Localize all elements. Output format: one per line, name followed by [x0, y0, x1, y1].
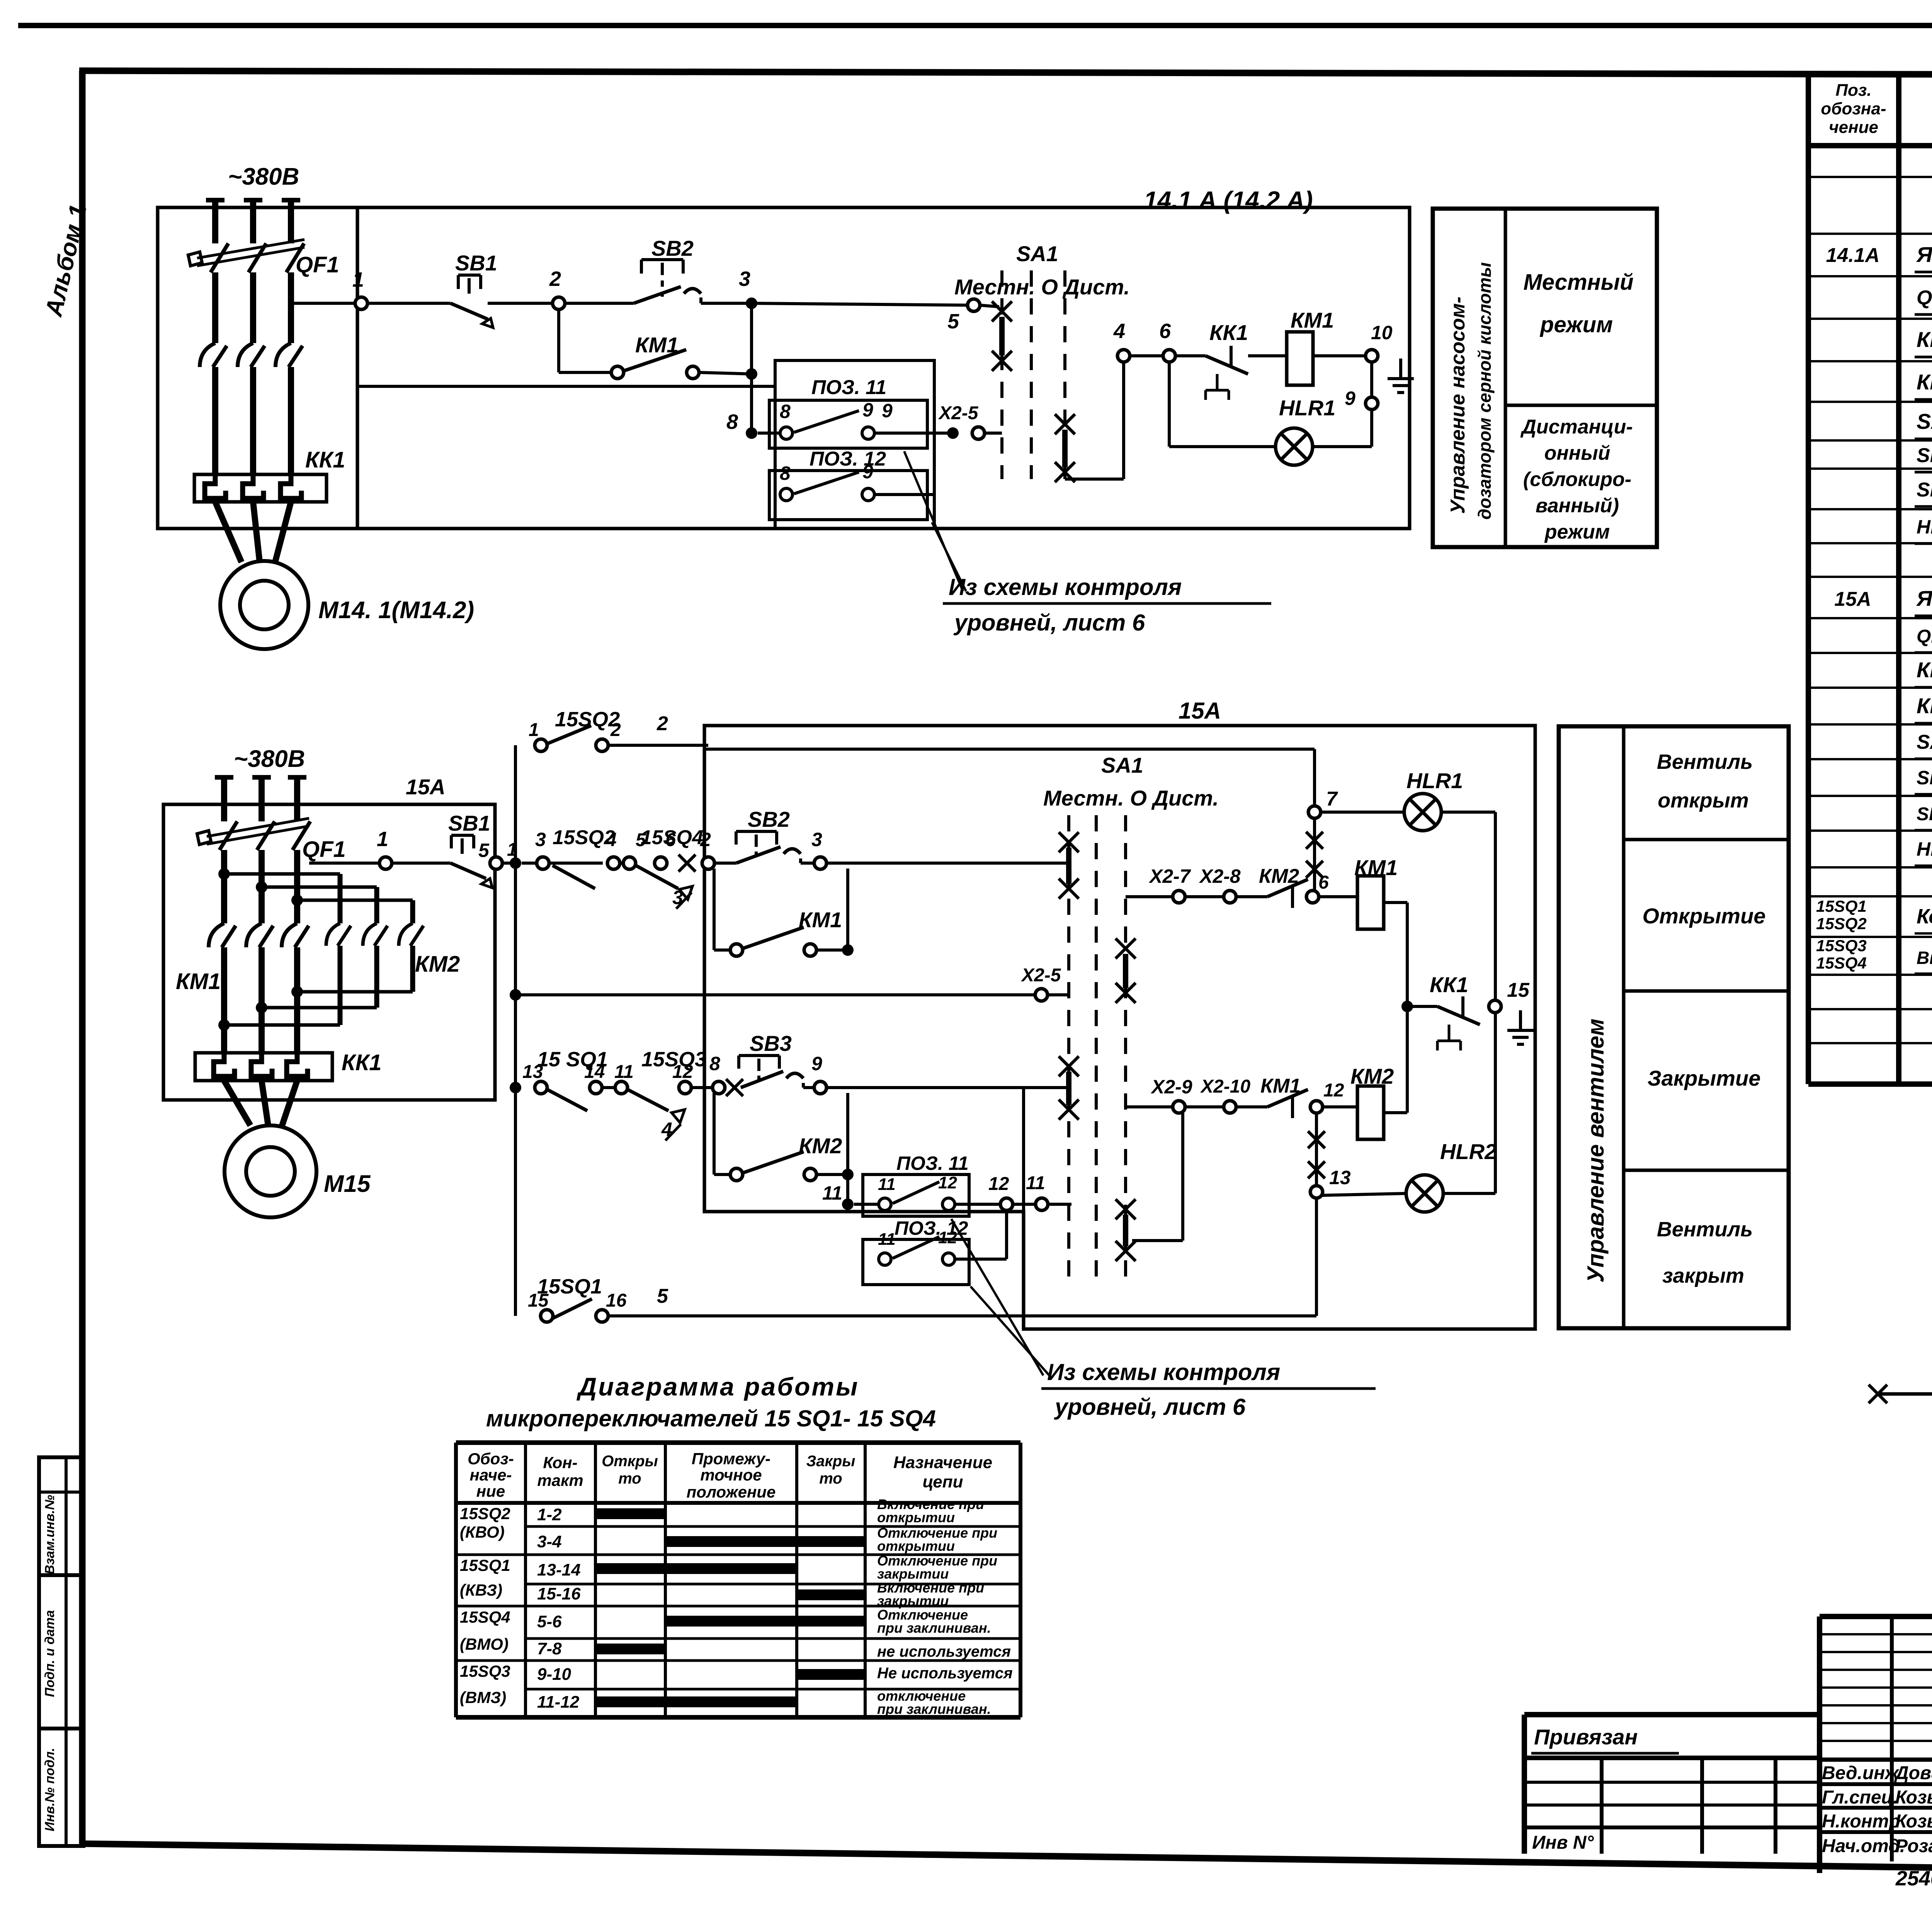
- svg-text:HLR1: HLR1: [1406, 768, 1463, 793]
- svg-text:10: 10: [1371, 322, 1393, 343]
- svg-text:КМ1, КМ2- Пускатель ПМЛ 1501: КМ1, КМ2- Пускатель ПМЛ 1501: [1917, 658, 1932, 682]
- svg-text:Закры: Закры: [806, 1453, 855, 1470]
- svg-text:дозатором серной кислоты: дозатором серной кислоты: [1475, 262, 1495, 520]
- svg-text:3-4: 3-4: [537, 1532, 562, 1551]
- svg-text:Обоз-: Обоз-: [468, 1450, 514, 1468]
- svg-text:15SQ1: 15SQ1: [460, 1556, 510, 1575]
- svg-text:Не используется: Не используется: [877, 1665, 1013, 1682]
- svg-text:при заклиниван.: при заклиниван.: [877, 1620, 991, 1636]
- svg-text:Поз.: Поз.: [1835, 81, 1871, 100]
- svg-text:Довгялло: Довгялло: [1894, 1763, 1932, 1783]
- svg-text:Розанов: Розанов: [1895, 1836, 1932, 1856]
- svg-text:ПОЗ. 12: ПОЗ. 12: [810, 448, 886, 470]
- svg-text:3: 3: [535, 829, 546, 850]
- svg-text:закрытии: закрытии: [877, 1593, 949, 1609]
- svg-text:SB3: SB3: [750, 1031, 792, 1056]
- svg-text:КМ1: КМ1: [1354, 855, 1398, 880]
- svg-text:Выключатель муфты предельного: Выключатель муфты предельного момента: [1917, 948, 1932, 968]
- svg-text:QF1- Выключатель АЕ2026-10НУ3-: QF1- Выключатель АЕ2026-10НУ3-Б, Iр1,6А: [1917, 287, 1932, 309]
- svg-text:Открытие: Открытие: [1643, 904, 1766, 928]
- svg-text:Вед.инж: Вед.инж: [1822, 1763, 1900, 1783]
- svg-text:2: 2: [656, 712, 668, 735]
- svg-text:Промежу-: Промежу-: [692, 1450, 770, 1468]
- svg-text:SB2: SB2: [748, 807, 790, 831]
- svg-text:15: 15: [528, 1290, 549, 1311]
- svg-text:8: 8: [709, 1053, 720, 1074]
- svg-text:SB1- Кнопка КЕ011У3, исп2, кра: SB1- Кнопка КЕ011У3, исп2, красный: [1917, 444, 1932, 467]
- svg-text:Управление вентилем: Управление вентилем: [1583, 1018, 1609, 1283]
- svg-text:1: 1: [529, 720, 539, 740]
- svg-text:ПОЗ. 11: ПОЗ. 11: [896, 1152, 969, 1174]
- svg-text:то: то: [618, 1470, 641, 1487]
- svg-text:SB1: SB1: [455, 251, 497, 275]
- svg-text:7-8: 7-8: [537, 1639, 562, 1658]
- svg-text:~380В: ~380В: [228, 163, 299, 190]
- svg-text:Местный: Местный: [1523, 270, 1633, 295]
- svg-text:Из схемы контроля: Из схемы контроля: [949, 574, 1182, 600]
- svg-text:Ящик управления Я5411-2074 УХЛ: Ящик управления Я5411-2074 УХЛ4: [1916, 586, 1932, 610]
- svg-text:КМ1: КМ1: [1291, 308, 1334, 332]
- svg-text:12: 12: [988, 1174, 1009, 1194]
- svg-text:25408-01: 25408-01: [1895, 1867, 1932, 1890]
- svg-text:12: 12: [1323, 1080, 1344, 1101]
- svg-text:15SQ1: 15SQ1: [1816, 897, 1867, 916]
- svg-text:Подп. и дата: Подп. и дата: [43, 1610, 57, 1697]
- svg-text:13-14: 13-14: [537, 1560, 581, 1579]
- svg-text:SB2: SB2: [651, 236, 694, 260]
- svg-text:(сблокиро-: (сблокиро-: [1523, 468, 1631, 491]
- svg-text:КМ1: КМ1: [635, 333, 679, 357]
- svg-text:15SQ3: 15SQ3: [460, 1662, 510, 1681]
- svg-text:М15: М15: [324, 1171, 371, 1197]
- svg-text:14: 14: [584, 1062, 605, 1082]
- svg-text:5: 5: [947, 310, 959, 333]
- svg-text:11: 11: [822, 1182, 842, 1204]
- svg-text:наче-: наче-: [470, 1466, 512, 1484]
- svg-text:КК1 - Реле РТЛ -1005: КК1 - Реле РТЛ -1005: [1917, 370, 1932, 394]
- svg-text:Н.контр: Н.контр: [1822, 1811, 1900, 1832]
- svg-text:11: 11: [614, 1062, 634, 1082]
- svg-text:7: 7: [1326, 788, 1338, 810]
- svg-text:ванный): ванный): [1536, 495, 1619, 517]
- svg-text:3: 3: [811, 829, 822, 850]
- svg-text:Х2-5: Х2-5: [1020, 965, 1061, 986]
- svg-text:3: 3: [739, 267, 750, 291]
- svg-text:9-10: 9-10: [537, 1665, 571, 1684]
- svg-text:Привязан: Привязан: [1534, 1725, 1638, 1749]
- svg-text:16: 16: [606, 1290, 627, 1311]
- svg-text:цепи: цепи: [923, 1472, 963, 1491]
- svg-text:15А: 15А: [1834, 588, 1871, 610]
- svg-text:(КВЗ): (КВЗ): [460, 1581, 502, 1599]
- svg-text:8: 8: [726, 410, 738, 433]
- svg-text:Х2-8: Х2-8: [1199, 865, 1241, 887]
- svg-text:(ВМО): (ВМО): [460, 1635, 509, 1653]
- svg-text:при заклиниван.: при заклиниван.: [877, 1701, 991, 1717]
- svg-text:12: 12: [672, 1062, 693, 1082]
- svg-text:2: 2: [549, 267, 561, 291]
- svg-text:9: 9: [862, 461, 873, 483]
- svg-text:режим: режим: [1539, 312, 1613, 337]
- svg-text:SB1 - Кнопка КЕ011У3, исп 2, к: SB1 - Кнопка КЕ011У3, исп 2, красный: [1917, 767, 1932, 789]
- svg-text:15SQ4: 15SQ4: [1816, 954, 1867, 972]
- svg-text:4: 4: [605, 829, 617, 850]
- svg-text:Инв.№ подл.: Инв.№ подл.: [43, 1748, 57, 1832]
- svg-text:не используется: не используется: [877, 1643, 1011, 1660]
- svg-text:13: 13: [1329, 1167, 1351, 1188]
- svg-text:13: 13: [522, 1062, 543, 1082]
- svg-text:Дистанци-: Дистанци-: [1520, 416, 1633, 438]
- svg-text:14.1А: 14.1А: [1826, 244, 1880, 267]
- svg-text:ПОЗ. 11: ПОЗ. 11: [811, 376, 886, 399]
- svg-text:SA1- Переключатель ПКУ3-14С-У: SA1- Переключатель ПКУ3-14С-У3: [1917, 731, 1932, 753]
- svg-text:8: 8: [780, 462, 791, 484]
- svg-text:ние: ние: [476, 1482, 505, 1500]
- svg-text:микропереключателей 15 SQ1- 1: микропереключателей 15 SQ1- 15 SQ4: [486, 1406, 936, 1431]
- svg-text:QF1: QF1: [302, 837, 346, 862]
- svg-text:Козьминых: Козьминых: [1895, 1811, 1932, 1832]
- svg-text:5: 5: [657, 1285, 668, 1307]
- svg-text:закрытии: закрытии: [877, 1566, 949, 1582]
- svg-text:(КВО): (КВО): [460, 1523, 505, 1541]
- svg-text:Х2-7: Х2-7: [1148, 865, 1191, 887]
- svg-text:открытии: открытии: [877, 1538, 955, 1554]
- svg-text:9: 9: [1345, 388, 1355, 409]
- svg-text:5: 5: [478, 840, 490, 861]
- svg-text:Конечный Выключатель: Конечный Выключатель: [1917, 905, 1932, 928]
- svg-text:онный: онный: [1544, 442, 1611, 464]
- svg-text:9: 9: [811, 1053, 822, 1074]
- svg-text:Местн. О Дист.: Местн. О Дист.: [954, 275, 1130, 299]
- svg-text:КК1: КК1: [342, 1050, 382, 1075]
- svg-text:КК1: КК1: [1209, 320, 1248, 345]
- svg-text:(ВМЗ): (ВМЗ): [460, 1688, 506, 1707]
- svg-text:9: 9: [882, 400, 893, 422]
- svg-text:Нач.отд.: Нач.отд.: [1822, 1836, 1905, 1856]
- svg-text:QF1: QF1: [296, 252, 339, 277]
- svg-text:КМ1: КМ1: [799, 908, 842, 932]
- svg-text:Из схемы контроля: Из схемы контроля: [1047, 1359, 1280, 1385]
- svg-text:15SQ2: 15SQ2: [460, 1504, 510, 1523]
- svg-text:SB2- Кнопка КЕ011У3, исп.2, че: SB2- Кнопка КЕ011У3, исп.2, черный: [1917, 479, 1932, 501]
- svg-text:12: 12: [938, 1228, 957, 1247]
- svg-text:Местн. О Дист.: Местн. О Дист.: [1043, 786, 1219, 810]
- svg-text:15А: 15А: [406, 775, 446, 799]
- svg-text:SA1- Переключатель ПКУ3-14С-У3: SA1- Переключатель ПКУ3-14С-У3: [1917, 409, 1932, 433]
- svg-text:чение: чение: [1829, 118, 1878, 137]
- svg-text:М14. 1(М14.2): М14. 1(М14.2): [318, 597, 474, 624]
- svg-text:9: 9: [862, 399, 873, 421]
- svg-text:15А: 15А: [1179, 698, 1221, 724]
- svg-text:КМ2: КМ2: [799, 1134, 842, 1158]
- svg-text:HLR1, HLR2- Арматура АМЕ-32112: HLR1, HLR2- Арматура АМЕ-3211221292: [1917, 838, 1932, 860]
- svg-text:уровней, лист 6: уровней, лист 6: [953, 610, 1145, 636]
- svg-text:1: 1: [377, 828, 388, 851]
- svg-text:11: 11: [878, 1175, 896, 1194]
- svg-text:1-2: 1-2: [537, 1505, 562, 1524]
- svg-text:режим: режим: [1544, 521, 1610, 543]
- svg-text:КМ2: КМ2: [1350, 1064, 1394, 1088]
- svg-text:открыт: открыт: [1658, 789, 1749, 812]
- svg-text:уровней, лист 6: уровней, лист 6: [1054, 1394, 1246, 1420]
- svg-text:точное: точное: [700, 1466, 762, 1484]
- svg-text:такт: такт: [537, 1471, 583, 1489]
- svg-text:Вентиль: Вентиль: [1657, 750, 1753, 773]
- svg-text:2: 2: [700, 829, 711, 850]
- svg-text:15SQ3: 15SQ3: [1816, 937, 1867, 955]
- svg-text:HLR1: HLR1: [1279, 396, 1335, 420]
- svg-text:11: 11: [1026, 1173, 1045, 1193]
- svg-text:Управление насосом-: Управление насосом-: [1447, 297, 1469, 514]
- svg-text:Х2-5: Х2-5: [938, 403, 979, 423]
- svg-text:КМ2: КМ2: [415, 952, 460, 977]
- svg-text:КК1: КК1: [1430, 972, 1468, 997]
- svg-text:Кон-: Кон-: [543, 1453, 577, 1472]
- svg-text:11: 11: [878, 1230, 896, 1249]
- svg-text:~380В: ~380В: [234, 746, 305, 772]
- svg-text:Откры: Откры: [602, 1453, 658, 1470]
- svg-text:2: 2: [610, 720, 621, 740]
- svg-text:Инв N°: Инв N°: [1532, 1832, 1594, 1853]
- svg-text:15SQ4: 15SQ4: [460, 1608, 510, 1627]
- svg-text:15: 15: [1507, 979, 1530, 1001]
- svg-text:14.1 А (14.2 А): 14.1 А (14.2 А): [1144, 186, 1313, 214]
- svg-text:1: 1: [352, 268, 364, 291]
- svg-text:HLR1- Арматура АМЕ3212 212У2 U: HLR1- Арматура АМЕ3212 212У2 U~220В: [1917, 516, 1932, 538]
- svg-text:Назначение: Назначение: [893, 1453, 992, 1472]
- svg-text:Ящик управления Я5111-2074УХ: Ящик управления Я5111-2074УХЛ4: [1916, 242, 1932, 267]
- svg-text:КК1: КК1: [305, 447, 345, 473]
- svg-text:Закрытие: Закрытие: [1648, 1066, 1761, 1090]
- svg-text:QF1- Выключатель АЕ2026-10НУ3-: QF1- Выключатель АЕ2026-10НУ3-Б, Iр1,6А: [1917, 626, 1932, 647]
- svg-text:4: 4: [1113, 320, 1125, 343]
- svg-text:Х2-10: Х2-10: [1200, 1076, 1250, 1097]
- svg-text:обозна-: обозна-: [1821, 99, 1886, 118]
- svg-text:положение: положение: [687, 1483, 776, 1501]
- svg-text:SA1: SA1: [1016, 241, 1058, 266]
- svg-text:SA1: SA1: [1101, 753, 1143, 777]
- svg-text:3: 3: [672, 887, 683, 908]
- svg-text:Вентиль: Вентиль: [1657, 1218, 1753, 1241]
- svg-text:то: то: [819, 1470, 842, 1487]
- svg-text:КМ1: КМ1: [176, 969, 221, 994]
- svg-text:открытии: открытии: [877, 1509, 955, 1525]
- svg-text:12: 12: [938, 1173, 957, 1192]
- svg-text:8: 8: [780, 401, 791, 422]
- svg-text:15SQ2: 15SQ2: [1816, 914, 1867, 933]
- svg-text:Гл.спец.: Гл.спец.: [1822, 1787, 1898, 1808]
- svg-text:закрыт: закрыт: [1662, 1264, 1744, 1287]
- svg-text:6: 6: [665, 830, 676, 850]
- svg-text:5-6: 5-6: [537, 1612, 562, 1631]
- svg-text:6: 6: [1159, 320, 1171, 343]
- svg-text:HLR2: HLR2: [1440, 1139, 1497, 1164]
- svg-text:Диаграмма работы: Диаграмма работы: [577, 1372, 859, 1401]
- svg-text:Х2-9: Х2-9: [1150, 1076, 1192, 1098]
- svg-text:11-12: 11-12: [537, 1693, 580, 1712]
- svg-text:15-16: 15-16: [537, 1584, 581, 1603]
- svg-text:КМ1- Пускатель ПМЛ 1100: КМ1- Пускатель ПМЛ 1100: [1917, 327, 1932, 352]
- svg-text:КК1 - Реле РТЛ -1005: КК1 - Реле РТЛ -1005: [1917, 693, 1932, 718]
- svg-text:SB1: SB1: [448, 811, 490, 835]
- svg-text:Козьминых: Козьминых: [1895, 1787, 1932, 1808]
- svg-text:Взам.инв.№: Взам.инв.№: [43, 1495, 57, 1574]
- svg-text:SB2, SB3- Кнопка КЕ011У3, исп2: SB2, SB3- Кнопка КЕ011У3, исп2, черный: [1917, 804, 1932, 824]
